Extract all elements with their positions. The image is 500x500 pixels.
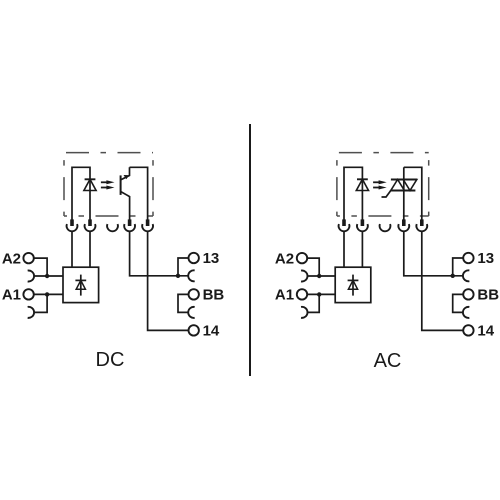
wire - bridge to input box (DC) [34, 275, 63, 277]
bridge contact below 13 (DC) [188, 270, 194, 281]
triac of AC optocoupler [391, 179, 417, 181]
svg-text:A1: A1 [2, 287, 21, 304]
bridge contact below A1 (DC) [28, 307, 34, 318]
junction A2 net (DC) [45, 274, 49, 278]
wire - bridge to input box (AC) [308, 275, 336, 277]
wire - lower bridge up to A1 net (AC) [308, 294, 320, 312]
socket 5 (DC) [142, 224, 153, 231]
wire - DC LED cathode lead to pin 2 [89, 167, 91, 220]
optical link arrows (AC) [373, 181, 380, 183]
terminal A2 (AC) [297, 253, 307, 263]
wire - emitter pin down to contact 13 rail (DC) [130, 231, 189, 276]
plug pin 3 (DC) [128, 219, 132, 226]
terminal A1 (DC) [23, 289, 33, 299]
wire - terminal 13 to rail (AC) [453, 258, 464, 276]
plug pin 2 (DC) [88, 219, 92, 226]
input protection box with diode (AC) [335, 267, 371, 302]
plug pin 1 (DC) [70, 219, 74, 226]
wire - box to socket 1 (DC) [71, 231, 73, 267]
wire - A1 to input box (AC) [307, 293, 335, 295]
empty socket 3 (DC) [107, 224, 118, 231]
plug pin 4 (AC) [420, 219, 424, 226]
wire - box to socket 1 (AC) [343, 231, 345, 267]
terminal 14 (DC) [189, 325, 199, 335]
socket 1 (AC) [339, 224, 350, 231]
junction contact 13 rail (AC) [451, 274, 455, 278]
svg-text:14: 14 [477, 323, 494, 340]
wire - AC LED cathode lead to pin 2 [361, 167, 363, 220]
plug pin 2 (AC) [361, 219, 365, 226]
wire - A2 to junction (AC) [307, 258, 319, 276]
socket 4 (DC) [124, 224, 135, 231]
socket 4 (AC) [398, 224, 409, 231]
plug pin 3 (AC) [402, 219, 406, 226]
wire - A1 to input box (DC) [34, 293, 63, 295]
wire - lower bridge up to A1 net (DC) [34, 294, 47, 312]
junction A1 net (AC) [317, 292, 321, 296]
optical link arrows (DC) [101, 181, 108, 183]
bridge contact below BB (DC) [188, 307, 194, 318]
socket 2 (AC) [357, 224, 368, 231]
terminal A2 (DC) [23, 253, 33, 263]
terminal A1 (AC) [297, 289, 307, 299]
svg-text:AC: AC [374, 350, 402, 372]
wire - box to socket 2 (AC) [361, 231, 363, 267]
terminal BB (DC) [189, 289, 199, 299]
svg-text:DC: DC [96, 349, 125, 371]
bridge contact below A2 (DC) [28, 271, 34, 282]
wire - AC LED anode feed (pin 1 to LED) [344, 167, 362, 220]
wire - DC collector top link to pin 4 [130, 167, 148, 220]
bridge contact below A1 (AC) [301, 307, 307, 318]
input protection box with diode (DC) [63, 267, 99, 302]
wire - BB bridge loop (AC) [453, 294, 464, 312]
terminal 13 (AC) [463, 253, 473, 263]
relay module K2 (AC) dash-dot enclosure [339, 152, 429, 154]
divider line between DC and AC sections [249, 124, 251, 376]
terminal 13 (DC) [189, 253, 199, 263]
wire - triac pin down to contact 13 rail (AC) [404, 231, 463, 276]
junction A2 net (AC) [317, 274, 321, 278]
wire - box to socket 2 (DC) [89, 231, 91, 267]
svg-text:13: 13 [477, 250, 494, 267]
svg-text:A2: A2 [2, 250, 21, 267]
bridge contact below BB (AC) [463, 307, 469, 318]
wire - BB bridge loop (DC) [178, 294, 189, 312]
wire - DC LED anode feed (pin 1 to LED) [72, 167, 90, 220]
junction contact 13 rail (DC) [176, 274, 180, 278]
wire - AC triac top link to pin 4 [404, 167, 422, 220]
wire - pin down to terminal 14 (AC) [422, 231, 463, 330]
wire - AC triac main vertical to pin 3 [403, 167, 405, 220]
socket 1 (DC) [67, 224, 78, 231]
svg-text:BB: BB [477, 287, 499, 304]
wire - A2 to junction (DC) [34, 258, 47, 276]
empty socket 3 (AC) [380, 224, 391, 231]
bridge contact below 13 (AC) [463, 270, 469, 281]
svg-text:14: 14 [203, 323, 220, 340]
svg-text:13: 13 [203, 250, 220, 267]
bridge contact below A2 (AC) [301, 271, 307, 282]
svg-text:A2: A2 [275, 250, 294, 267]
plug pin 4 (DC) [146, 219, 150, 226]
junction A1 net (DC) [45, 292, 49, 296]
terminal BB (AC) [463, 289, 473, 299]
svg-text:A1: A1 [275, 287, 294, 304]
terminal 14 (AC) [463, 325, 473, 335]
wire - collector pin down to terminal 14 (DC) [148, 231, 189, 330]
LED of AC optocoupler [357, 178, 368, 180]
socket 2 (DC) [85, 224, 96, 231]
wire - terminal 13 to rail (DC) [178, 258, 189, 276]
phototransistor of DC optocoupler [120, 175, 122, 195]
LED of DC optocoupler [85, 178, 96, 180]
plug pin 1 (AC) [342, 219, 346, 226]
svg-text:BB: BB [203, 287, 225, 304]
relay module K1 (DC) dash-dot enclosure [66, 152, 153, 154]
socket 5 (AC) [416, 224, 427, 231]
